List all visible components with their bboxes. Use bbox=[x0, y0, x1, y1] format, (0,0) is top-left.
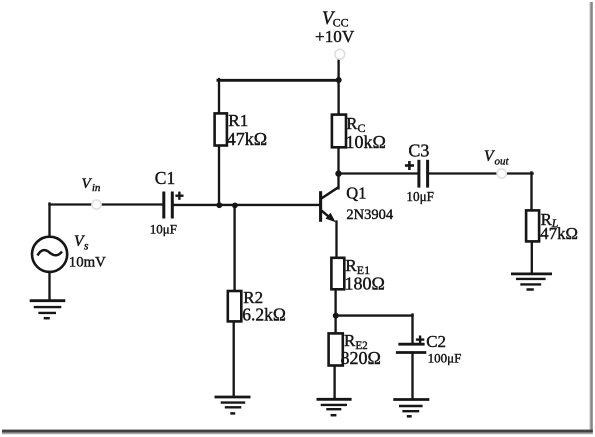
svg-text:820Ω: 820Ω bbox=[341, 348, 381, 368]
wire VCC vertical down to RC bbox=[337, 59, 339, 116]
wire R2 branch vertical bbox=[233, 205, 235, 290]
svg-text:R1: R1 bbox=[228, 111, 248, 130]
wire emitter node to C2 horizontal bbox=[336, 314, 413, 316]
svg-text:10μF: 10μF bbox=[150, 221, 177, 236]
svg-text:47kΩ: 47kΩ bbox=[227, 129, 267, 149]
svg-text:100μF: 100μF bbox=[428, 350, 462, 365]
ground for RE2 bbox=[317, 399, 352, 415]
wire input horizontal from Vs corner to C1 bbox=[50, 203, 163, 205]
wire R2 to ground bbox=[233, 324, 235, 397]
wire RE1 to RE2 through node bbox=[334, 291, 336, 334]
svg-text:6.2kΩ: 6.2kΩ bbox=[242, 305, 286, 325]
right shadow border bbox=[590, 2, 593, 432]
wire C3 to Vout corner bbox=[429, 172, 497, 174]
svg-text:47kΩ: 47kΩ bbox=[540, 224, 578, 243]
wire Vout to RL corner bbox=[506, 172, 533, 174]
junction node base right bbox=[232, 203, 238, 209]
wire RL vertical top bbox=[530, 172, 532, 208]
junction node collector bbox=[335, 170, 341, 176]
capacitor C3 bbox=[405, 140, 434, 204]
svg-text:10mV: 10mV bbox=[69, 255, 106, 271]
terminal Vout bbox=[484, 148, 509, 178]
source Vs bbox=[32, 233, 106, 272]
wire Vs vertical upper bbox=[48, 204, 50, 238]
wire collector node to C3 bbox=[339, 172, 418, 174]
resistor R1 bbox=[215, 111, 268, 149]
resistor R2 bbox=[228, 288, 286, 324]
ground for R2 bbox=[215, 397, 251, 413]
ground for C2 bbox=[393, 400, 429, 417]
bottom shadow bar bbox=[2, 430, 593, 433]
wire RE2 to ground bbox=[333, 366, 335, 399]
svg-text:Q1: Q1 bbox=[346, 183, 366, 202]
svg-text:C3: C3 bbox=[408, 140, 429, 160]
transistor Q1 bbox=[321, 183, 394, 223]
svg-text:C1: C1 bbox=[155, 168, 175, 188]
junction node at top rail bbox=[336, 77, 342, 83]
wire Vs vertical lower bbox=[48, 272, 50, 300]
ground for RL bbox=[511, 274, 552, 290]
svg-text:180Ω: 180Ω bbox=[345, 274, 385, 294]
wire C2 bottom to ground bbox=[411, 353, 413, 399]
junction node emitter bbox=[333, 313, 339, 319]
svg-text:+10V: +10V bbox=[315, 27, 355, 46]
wire R1 branch vertical bbox=[218, 79, 220, 205]
svg-text:C2: C2 bbox=[426, 332, 446, 351]
wire top horizontal rail bbox=[218, 79, 340, 82]
wire emitter vertical to RE1 bbox=[335, 222, 337, 257]
wire C1 to base bbox=[174, 204, 320, 206]
resistor RE2 bbox=[329, 331, 381, 368]
wire C2 vertical top bbox=[411, 315, 413, 344]
wire RL to ground bbox=[531, 242, 533, 273]
resistor RE1 bbox=[331, 256, 384, 294]
junction node base left bbox=[216, 202, 222, 208]
svg-text:10kΩ: 10kΩ bbox=[346, 132, 386, 152]
terminal Vin bbox=[82, 176, 102, 209]
resistor RL bbox=[526, 210, 578, 243]
ground for Vs bbox=[30, 301, 66, 319]
capacitor C2 bbox=[396, 332, 461, 366]
terminal VCC bbox=[315, 9, 355, 59]
svg-text:10μF: 10μF bbox=[406, 189, 434, 204]
resistor RC bbox=[332, 114, 386, 152]
capacitor C1 bbox=[150, 168, 184, 237]
svg-text:2N3904: 2N3904 bbox=[346, 207, 393, 223]
wire RC bottom to collector node and stub bbox=[337, 148, 339, 189]
